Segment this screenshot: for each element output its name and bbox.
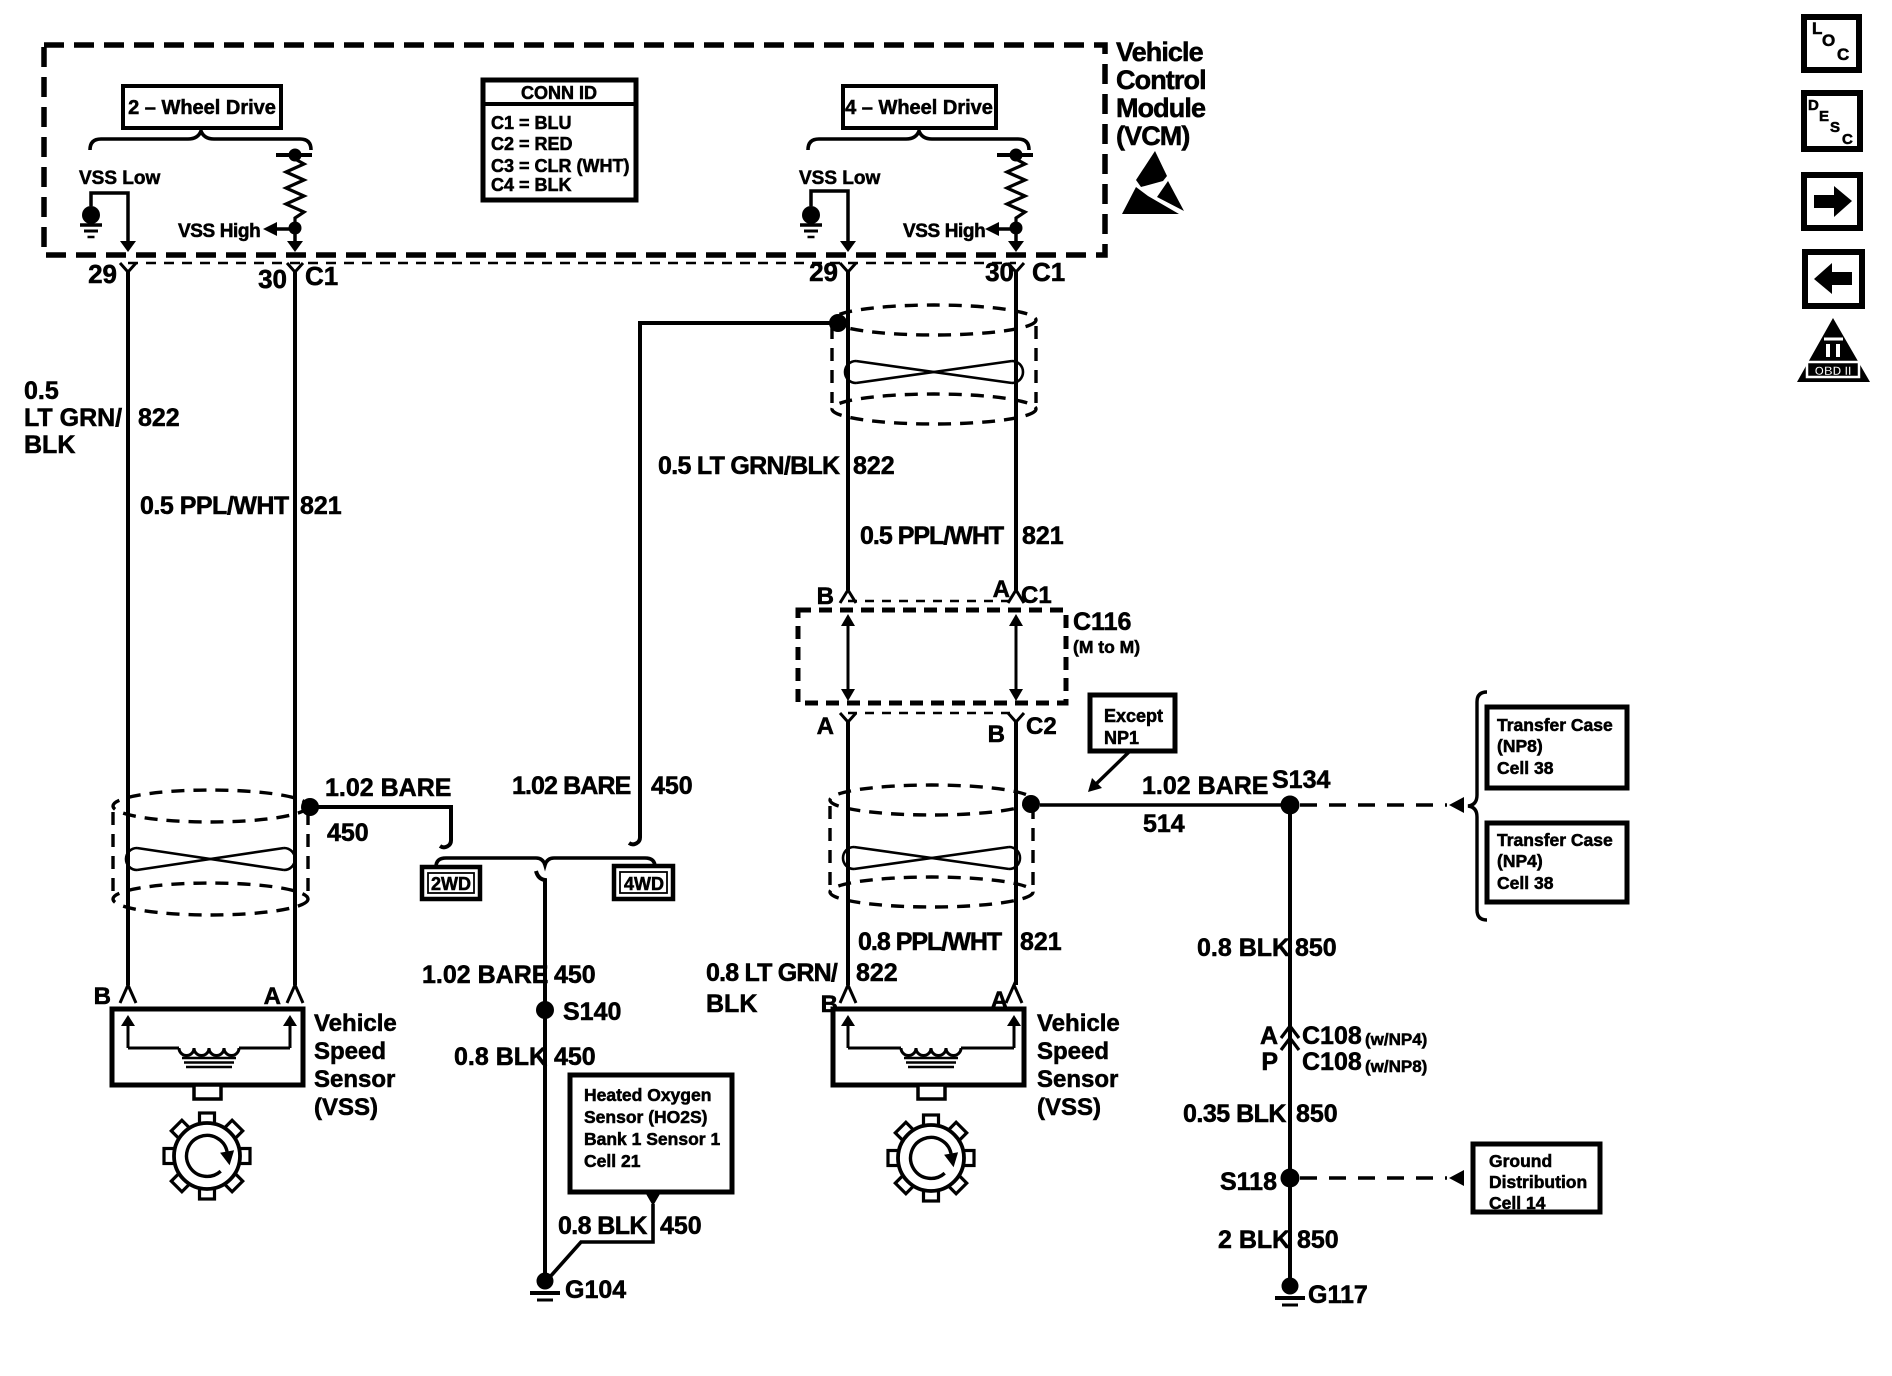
svg-text:G104: G104: [565, 1276, 626, 1304]
label 0.5 LT GRN/BLK 822 (2WD): [24, 377, 180, 459]
label 0.35 BLK 850: [1183, 1100, 1338, 1128]
splice S134: [1272, 766, 1330, 815]
label box 2-Wheel Drive: [123, 86, 281, 128]
label 1.02 BARE 450 (2WD drain): [325, 774, 451, 847]
svg-text:0.5 PPL/WHT: 0.5 PPL/WHT: [860, 522, 1004, 550]
label 1.02 BARE 450 (4WD drain): [512, 772, 693, 800]
svg-text:C1: C1: [1032, 257, 1065, 287]
CONN ID table: [483, 80, 636, 200]
label box 4WD: [614, 866, 673, 899]
svg-text:B: B: [817, 583, 834, 610]
svg-text:29: 29: [88, 259, 117, 289]
svg-text:(NP4): (NP4): [1497, 851, 1543, 871]
splice drain wire dot (4WD shield upper): [829, 314, 847, 332]
label C116 (M to M): [1073, 608, 1140, 657]
vehicle speed sensor VSS (4WD): [833, 1009, 1024, 1099]
reluctor gear (4WD VSS): [888, 1115, 974, 1201]
label A C108 w/NP4: [1260, 1022, 1427, 1050]
svg-text:(w/NP8): (w/NP8): [1365, 1057, 1427, 1076]
splice drain wire dot (2WD shield): [301, 798, 319, 816]
svg-text:S140: S140: [563, 998, 621, 1026]
splice S118: [1220, 1168, 1300, 1196]
svg-text:(w/NP4): (w/NP4): [1365, 1030, 1427, 1049]
wire drain to switch contact (4WD side): [629, 323, 848, 844]
svg-text:2 BLK: 2 BLK: [1218, 1226, 1290, 1254]
svg-text:Cell 14: Cell 14: [1489, 1193, 1546, 1213]
icon DESC: [1804, 93, 1860, 149]
svg-text:VSS Low: VSS Low: [79, 168, 161, 189]
svg-text:Transfer Case: Transfer Case: [1497, 715, 1613, 735]
svg-text:A: A: [817, 713, 834, 740]
label Vehicle Speed Sensor VSS (4WD): [1037, 1010, 1120, 1121]
ground symbol VSS Low (4WD): [800, 206, 822, 237]
svg-text:0.8 BLK: 0.8 BLK: [558, 1212, 647, 1240]
vehicle speed sensor VSS (2WD): [112, 1009, 303, 1099]
label 2 BLK 850: [1218, 1226, 1339, 1254]
pin 30 (2WD): [258, 263, 303, 294]
svg-text:Distribution: Distribution: [1489, 1172, 1587, 1192]
svg-text:2 – Wheel Drive: 2 – Wheel Drive: [128, 97, 276, 119]
svg-text:(VSS): (VSS): [1037, 1094, 1101, 1121]
reluctor gear (2WD VSS): [164, 1113, 250, 1199]
svg-text:0.8 BLK: 0.8 BLK: [454, 1043, 547, 1071]
svg-text:Heated Oxygen: Heated Oxygen: [584, 1085, 711, 1105]
svg-text:29: 29: [809, 257, 838, 287]
svg-text:C108: C108: [1302, 1022, 1362, 1050]
svg-text:850: 850: [1296, 1100, 1338, 1128]
icon LOC: [1804, 17, 1859, 70]
label 0.8 BLK 450 (below S140): [454, 1043, 596, 1071]
brace under 2-Wheel Drive: [90, 131, 311, 150]
icon back arrow: [1805, 252, 1862, 306]
svg-text:1.02 BARE: 1.02 BARE: [1142, 772, 1268, 800]
ESD warning symbol: [1122, 151, 1184, 214]
svg-text:Module: Module: [1116, 93, 1206, 123]
svg-text:822: 822: [138, 404, 180, 432]
svg-text:821: 821: [1020, 928, 1062, 956]
VCM title text: [1116, 37, 1206, 151]
svg-text:450: 450: [660, 1212, 702, 1240]
svg-text:Sensor (HO2S): Sensor (HO2S): [584, 1107, 708, 1127]
wire 850 S134 down to G117: [1288, 805, 1292, 1278]
wire 822 circuit (2WD) pin29 to VSS: [126, 272, 130, 985]
svg-text:450: 450: [651, 772, 693, 800]
wire resistor to pin 30 (4WD): [1008, 228, 1024, 252]
svg-text:(VSS): (VSS): [314, 1094, 378, 1121]
splice drain wire dot (4WD shield lower): [1022, 795, 1040, 813]
svg-text:30: 30: [258, 264, 287, 294]
svg-text:Speed: Speed: [1037, 1038, 1109, 1065]
svg-text:Vehicle: Vehicle: [1116, 37, 1204, 67]
resistor VSS pull-up (4WD): [997, 149, 1033, 235]
svg-text:Vehicle: Vehicle: [1037, 1010, 1120, 1037]
svg-text:C1: C1: [305, 261, 338, 291]
switch 2WD/4WD selector bar: [436, 858, 655, 867]
connector C2 harness line: [848, 712, 1016, 714]
svg-text:O: O: [1822, 31, 1835, 50]
brace transfer case targets: [1468, 692, 1487, 920]
svg-text:850: 850: [1297, 1226, 1339, 1254]
svg-text:850: 850: [1295, 934, 1337, 962]
svg-text:0.35 BLK: 0.35 BLK: [1183, 1100, 1286, 1128]
brace under 4-Wheel Drive: [808, 131, 1029, 150]
svg-text:A: A: [264, 983, 281, 1010]
svg-text:0.5: 0.5: [24, 377, 59, 405]
label Vehicle Speed Sensor VSS (2WD): [314, 1010, 397, 1121]
wire VSS Low to pin 29 (4WD): [811, 191, 856, 252]
connector C1 pin line at VCM: [128, 262, 1016, 264]
wire drain to S134: [1040, 803, 1290, 807]
svg-text:(M to M): (M to M): [1073, 637, 1140, 657]
wire switch common down to S140: [536, 871, 545, 1273]
svg-text:VSS Low: VSS Low: [799, 168, 881, 189]
svg-text:S134: S134: [1272, 766, 1330, 794]
wire S134 to transfer case (dashed off-page): [1300, 797, 1464, 813]
svg-text:0.8 BLK: 0.8 BLK: [1197, 934, 1290, 962]
svg-text:OBD II: OBD II: [1815, 364, 1852, 378]
icon OBD II: [1797, 318, 1870, 382]
svg-text:B: B: [988, 721, 1005, 748]
label 0.8 BLK 450 (HO2S lead): [558, 1212, 702, 1240]
svg-text:B: B: [94, 983, 111, 1010]
svg-text:BLK: BLK: [24, 431, 75, 459]
pin A at C1 mid: [993, 576, 1024, 603]
svg-text:Speed: Speed: [314, 1038, 386, 1065]
connector C1 harness line (4WD mid): [848, 600, 1016, 602]
label 0.5 PPL/WHT 821 (4WD): [860, 522, 1064, 550]
reference box Ground Distribution: [1473, 1144, 1600, 1213]
wire C2 pin B down to VSS (4WD): [1014, 722, 1018, 985]
svg-text:514: 514: [1143, 810, 1185, 838]
svg-text:4 – Wheel Drive: 4 – Wheel Drive: [845, 97, 993, 119]
svg-text:4WD: 4WD: [624, 874, 664, 894]
svg-text:NP1: NP1: [1104, 728, 1139, 748]
wire 821 circuit (2WD) pin30 to VSS: [293, 272, 297, 985]
svg-text:L: L: [1812, 19, 1822, 38]
svg-text:Transfer Case: Transfer Case: [1497, 830, 1613, 850]
twisted pair shield lower (4WD): [830, 785, 1033, 907]
svg-text:Sensor: Sensor: [1037, 1066, 1118, 1093]
svg-text:Sensor: Sensor: [314, 1066, 395, 1093]
svg-text:822: 822: [856, 959, 898, 987]
label 1.02 BARE 514: [1142, 772, 1268, 838]
svg-text:LT GRN/: LT GRN/: [24, 404, 122, 432]
svg-text:450: 450: [554, 1043, 596, 1071]
svg-text:D: D: [1808, 97, 1819, 114]
svg-text:Cell 38: Cell 38: [1497, 758, 1554, 778]
wire 822 circuit (4WD) pin29 to C116: [846, 272, 850, 590]
svg-text:C2: C2: [1026, 713, 1057, 740]
twisted pair shield upper (4WD): [832, 305, 1036, 424]
svg-text:C: C: [1842, 131, 1853, 148]
pin B at C2: [988, 713, 1024, 748]
svg-text:1.02 BARE: 1.02 BARE: [325, 774, 451, 802]
svg-text:Cell 21: Cell 21: [584, 1151, 641, 1171]
svg-text:S: S: [1830, 119, 1840, 136]
svg-text:C4 = BLK: C4 = BLK: [491, 175, 572, 195]
VCM module dashed box: [44, 45, 1105, 255]
wire HO2S ground lead to G104: [549, 1193, 661, 1278]
wire VSS Low to pin 29 (2WD): [91, 193, 136, 252]
label 0.8 LT GRN/ BLK 822 (4WD): [706, 959, 898, 1018]
svg-text:(VCM): (VCM): [1116, 121, 1189, 151]
svg-text:821: 821: [300, 492, 342, 520]
HO2S reference box: [570, 1075, 732, 1192]
ground G104: [530, 1273, 626, 1305]
svg-text:450: 450: [554, 961, 596, 989]
label 0.5 LT GRN/BLK 822 (4WD): [658, 452, 895, 480]
svg-text:S118: S118: [1220, 1168, 1277, 1196]
connector C116 dashed box: [798, 610, 1066, 703]
svg-text:Except: Except: [1104, 706, 1163, 726]
splice S140: [536, 998, 621, 1026]
pin 29 (2WD): [88, 259, 136, 289]
label 0.8 PPL/WHT 821 (4WD): [858, 928, 1062, 956]
label box Except NP1: [1090, 695, 1175, 751]
C116 through arrows pin 30 side: [1009, 614, 1023, 701]
C116 through arrows pin 29 side: [841, 614, 855, 701]
svg-text:VSS High: VSS High: [903, 221, 985, 242]
svg-text:Control: Control: [1116, 65, 1206, 95]
svg-text:Cell 38: Cell 38: [1497, 873, 1554, 893]
svg-text:Bank 1 Sensor 1: Bank 1 Sensor 1: [584, 1129, 720, 1149]
ground symbol VSS Low (2WD): [80, 206, 102, 237]
svg-text:C116: C116: [1073, 608, 1131, 636]
pin 29 (4WD): [809, 257, 856, 287]
svg-text:BLK: BLK: [706, 990, 757, 1018]
svg-text:Vehicle: Vehicle: [314, 1010, 397, 1037]
svg-text:Ground: Ground: [1489, 1151, 1552, 1171]
label box 2WD: [422, 867, 480, 899]
label box 4-Wheel Drive: [843, 86, 996, 128]
pin B (2WD VSS): [94, 983, 136, 1010]
label P C108 w/NP8: [1261, 1048, 1427, 1076]
svg-text:G117: G117: [1308, 1281, 1368, 1309]
svg-text:30: 30: [985, 257, 1014, 287]
svg-text:CONN ID: CONN ID: [521, 83, 597, 103]
svg-text:(NP8): (NP8): [1497, 736, 1543, 756]
pin A (4WD VSS): [991, 985, 1022, 1014]
svg-text:0.5 LT GRN/BLK: 0.5 LT GRN/BLK: [658, 452, 840, 480]
svg-text:822: 822: [853, 452, 895, 480]
svg-text:0.8 PPL/WHT: 0.8 PPL/WHT: [858, 928, 1002, 956]
svg-text:C2 = RED: C2 = RED: [491, 134, 573, 154]
svg-text:VSS High: VSS High: [178, 221, 260, 242]
svg-text:C1 = BLU: C1 = BLU: [491, 113, 572, 133]
wire S118 to ground distribution (dashed off-page): [1300, 1170, 1464, 1186]
svg-text:A: A: [993, 576, 1010, 603]
label VSS High (4WD): [903, 221, 1016, 242]
pin 30 (4WD): [985, 257, 1024, 287]
icon forward arrow: [1804, 175, 1860, 228]
label 0.5 PPL/WHT 821 (2WD): [140, 492, 342, 520]
svg-text:A: A: [1260, 1022, 1278, 1050]
reference box Transfer Case NP4: [1487, 823, 1627, 902]
svg-text:2WD: 2WD: [431, 874, 471, 894]
pin B at C1 mid: [817, 583, 856, 610]
pin B (4WD VSS): [821, 985, 856, 1018]
svg-text:1.02 BARE: 1.02 BARE: [422, 961, 548, 989]
label 0.8 BLK 850: [1197, 934, 1337, 962]
ground G117: [1275, 1278, 1368, 1310]
svg-text:C3 = CLR (WHT): C3 = CLR (WHT): [491, 156, 630, 176]
svg-text:821: 821: [1022, 522, 1064, 550]
svg-text:450: 450: [327, 819, 369, 847]
svg-text:C108: C108: [1302, 1048, 1362, 1076]
svg-text:E: E: [1819, 108, 1829, 125]
pin A (2WD VSS): [264, 983, 303, 1010]
connector C108 chevrons: [1281, 1026, 1299, 1050]
twisted pair shield (2WD): [113, 790, 308, 915]
svg-text:0.5 PPL/WHT: 0.5 PPL/WHT: [140, 492, 289, 520]
svg-text:P: P: [1261, 1048, 1278, 1076]
resistor VSS pull-up (2WD): [276, 149, 312, 235]
reference box Transfer Case NP8: [1487, 707, 1627, 788]
svg-text:0.8 LT GRN/: 0.8 LT GRN/: [706, 959, 838, 987]
label VSS High (2WD): [178, 221, 295, 242]
label 1.02 BARE 450 (switch common): [422, 961, 596, 989]
wire C2 pin A down to VSS (4WD): [846, 722, 850, 985]
wire resistor to pin 30 (2WD): [287, 228, 303, 252]
arrow Except NP1 to wire: [1088, 751, 1130, 792]
svg-text:C: C: [1837, 45, 1849, 64]
svg-text:C1: C1: [1021, 582, 1052, 609]
wire 821 circuit (4WD) pin30 to C116: [1014, 272, 1018, 590]
svg-text:1.02 BARE: 1.02 BARE: [512, 772, 631, 800]
wire drain 450 to switch contact (2WD side): [318, 807, 451, 847]
pin A at C2: [817, 713, 856, 740]
